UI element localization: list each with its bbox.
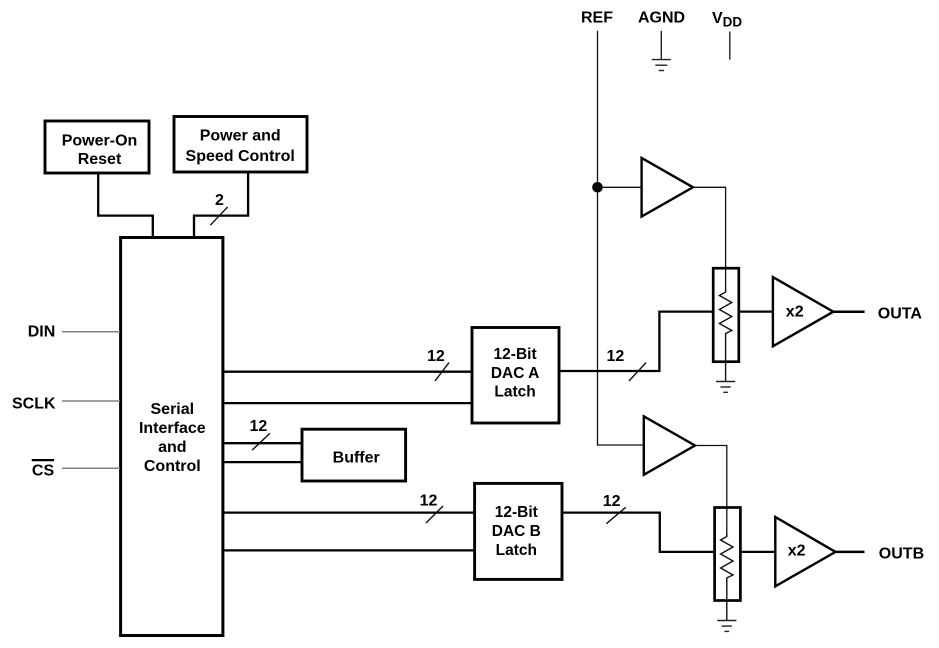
svg-text:and: and — [158, 439, 186, 456]
svg-text:x2: x2 — [786, 304, 804, 321]
svg-text:DIN: DIN — [28, 324, 56, 341]
wire PSC to serial box — [194, 172, 248, 238]
ground AGND — [652, 31, 671, 71]
svg-text:Power-On: Power-On — [62, 133, 138, 150]
svg-text:DAC A: DAC A — [491, 365, 540, 382]
op-amp x2 A — [773, 277, 833, 346]
svg-text:Power and: Power and — [200, 128, 281, 145]
svg-text:OUTB: OUTB — [879, 546, 924, 563]
resistor B zigzag — [721, 534, 733, 621]
svg-text:12: 12 — [250, 418, 268, 435]
svg-text:Latch: Latch — [494, 384, 535, 401]
svg-text:OUTA: OUTA — [878, 306, 923, 323]
bus slash (DAC B in) — [426, 506, 443, 523]
op-amp buffer B — [644, 416, 695, 475]
resistor A box — [713, 268, 739, 362]
svg-text:REF: REF — [581, 10, 613, 27]
svg-text:2: 2 — [215, 192, 224, 209]
svg-text:CS: CS — [32, 462, 55, 479]
svg-text:AGND: AGND — [638, 10, 685, 27]
wire node to buffer A — [598, 186, 642, 188]
svg-text:Serial: Serial — [151, 401, 195, 418]
overline CS — [32, 459, 54, 461]
wire REF vertical — [598, 31, 644, 445]
block 12-Bit DAC A Latch — [472, 328, 559, 424]
svg-text:Interface: Interface — [139, 420, 206, 437]
resistor B box — [715, 508, 741, 601]
wire buffer A output — [693, 187, 726, 290]
svg-text:12-Bit: 12-Bit — [494, 346, 537, 363]
wire x2 A output — [833, 310, 864, 313]
block 12-Bit DAC B Latch — [475, 483, 562, 579]
wire DAC B output — [562, 513, 715, 552]
bus slash (DAC B out) — [606, 507, 625, 523]
svg-text:Reset: Reset — [78, 151, 122, 168]
wire DAC A output — [559, 312, 713, 371]
svg-text:Latch: Latch — [496, 542, 537, 559]
block Buffer — [302, 429, 406, 481]
svg-text:12-Bit: 12-Bit — [495, 504, 538, 521]
wire DIN — [62, 331, 120, 333]
wire POR to serial box — [98, 173, 153, 238]
svg-text:x2: x2 — [788, 543, 806, 560]
wire SCLK — [62, 400, 120, 402]
wire resistor A to x2 A — [739, 310, 773, 312]
ground under resistor A — [716, 382, 735, 393]
svg-text:12: 12 — [603, 493, 621, 510]
wire bus to DAC A (top) — [222, 371, 473, 373]
bus slash (DAC A out) — [629, 363, 646, 381]
bus slash (Buffer) — [252, 433, 270, 450]
wire resistor B to x2 B — [740, 551, 775, 553]
block Power-On Reset — [45, 121, 149, 173]
svg-text:SCLK: SCLK — [12, 395, 56, 412]
wire to DAC B (bottom) — [222, 549, 475, 551]
wire VDD stub — [729, 32, 731, 60]
wire bus to DAC B (top) — [222, 511, 475, 513]
wire CS — [62, 467, 120, 469]
bus slash 2 — [210, 207, 227, 225]
svg-text:Buffer: Buffer — [333, 449, 380, 466]
svg-text:12: 12 — [427, 348, 445, 365]
block Serial Interface and Control — [121, 238, 223, 636]
svg-text:12: 12 — [607, 348, 625, 365]
wire bus to Buffer (top) — [222, 442, 303, 444]
wire to Buffer (bottom) — [222, 461, 303, 463]
svg-text:12: 12 — [420, 493, 438, 510]
junction node on REF — [592, 182, 603, 193]
op-amp buffer A — [642, 158, 693, 217]
wire to DAC A (bottom) — [222, 402, 473, 404]
resistor A zigzag — [719, 289, 731, 382]
ground under resistor B — [717, 621, 736, 632]
wire buffer B output — [695, 446, 727, 537]
bus slash (DAC A in) — [435, 363, 449, 381]
wire x2 B output — [836, 551, 865, 554]
op-amp x2 B — [775, 517, 835, 586]
svg-text:DAC B: DAC B — [492, 523, 541, 540]
svg-text:Speed Control: Speed Control — [186, 148, 295, 165]
svg-text:Control: Control — [144, 458, 201, 475]
block Power and Speed Control — [174, 117, 307, 173]
